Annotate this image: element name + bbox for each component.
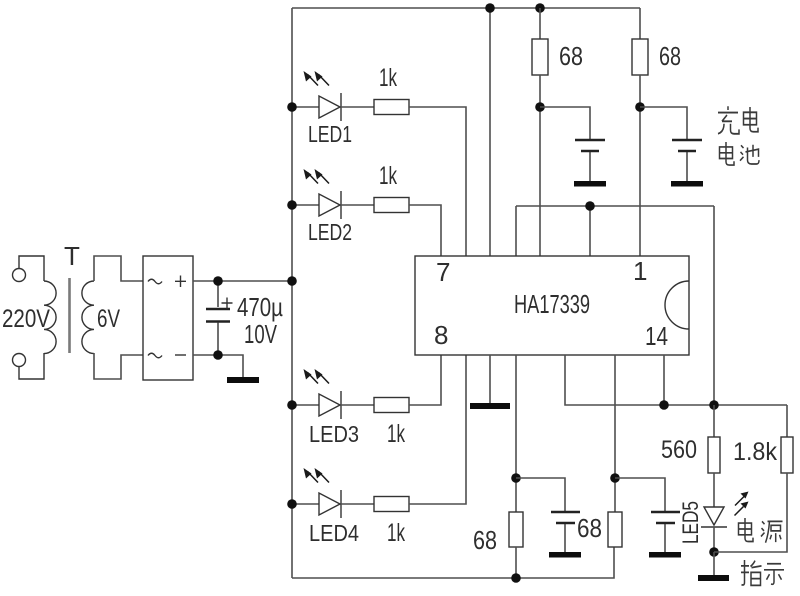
ground battery B1 [574, 181, 606, 187]
resistor R3 1k [374, 398, 409, 413]
wire LED5 to ground [713, 552, 715, 575]
wire bottom bus [292, 547, 614, 578]
wire 68 chain x540 [539, 8, 541, 39]
node top bus x540 [535, 3, 545, 13]
capacitor C3 stub [615, 478, 665, 511]
node battery2 tap [635, 102, 645, 112]
resistor R7 68 [509, 512, 523, 547]
rectifier + [175, 276, 186, 288]
label chong dian [718, 106, 739, 134]
wire 1.8k bottom to LED5 node [714, 473, 787, 552]
resistor R10 1.8k [781, 437, 793, 473]
capacitor C3 plate long [651, 511, 680, 513]
svg-text:1k: 1k [379, 64, 397, 92]
node LED1 [287, 102, 297, 112]
wire rectifier + output [193, 280, 292, 282]
svg-text:LED1: LED1 [308, 121, 352, 147]
svg-text:68: 68 [659, 41, 681, 71]
wire pin14 drop x664 [663, 355, 665, 405]
wire R5 down to IC [539, 75, 541, 256]
rectifier ~ top [148, 279, 162, 284]
svg-text:14: 14 [645, 321, 668, 351]
node bottom bus x516 [511, 573, 521, 583]
label zhi shi [741, 560, 762, 585]
capacitor C1 plate bottom [206, 320, 230, 323]
ground below rectifier [227, 377, 259, 383]
wire net mid left drop [515, 206, 517, 256]
capacitor C2 stub [516, 478, 565, 511]
svg-text:LED5: LED5 [678, 501, 703, 544]
ground LED5 [698, 575, 729, 581]
wire 560 top lead [713, 405, 715, 437]
svg-text:HA17339: HA17339 [514, 289, 590, 319]
node net405 x714 [709, 400, 719, 410]
node x615 cap tap [610, 473, 620, 483]
capacitor C1 lead bottom [217, 322, 219, 355]
resistor R5 68 [532, 39, 548, 75]
ground battery B2 [671, 181, 703, 187]
wire primary bottom [19, 353, 44, 379]
capacitor C2 plate short [556, 522, 575, 524]
node LED2 [287, 200, 297, 210]
svg-text:1: 1 [633, 256, 647, 286]
transformer core [68, 278, 71, 353]
resistor R8 68 [608, 512, 622, 547]
LED1 diode [292, 93, 374, 121]
svg-text:10V: 10V [244, 319, 277, 349]
svg-text:68: 68 [577, 513, 602, 543]
svg-text:8: 8 [434, 320, 448, 350]
label dian yuan [739, 518, 754, 542]
wire pin x569 to net405 [565, 355, 787, 405]
battery B1 lead [589, 152, 591, 181]
LED5 arrows [735, 492, 749, 516]
svg-text:560: 560 [661, 436, 697, 464]
svg-text:1.8k: 1.8k [733, 438, 777, 466]
battery B2 plate short [678, 150, 696, 152]
battery B2 plate long [672, 139, 702, 141]
svg-text:6V: 6V [97, 305, 120, 333]
wire secondary bottom [94, 353, 143, 379]
node rectifier cap bottom [213, 350, 223, 360]
svg-text:1k: 1k [379, 162, 397, 190]
node LED4 [287, 499, 297, 509]
node net405 x664 [659, 400, 669, 410]
resistor R4 1k [374, 497, 409, 512]
node LED3 [287, 400, 297, 410]
svg-text:1k: 1k [387, 420, 405, 448]
svg-text:T: T [64, 241, 80, 271]
LED3 arrows [304, 369, 330, 384]
ground capacitor C2 [549, 552, 581, 558]
terminal circle bottom [13, 354, 26, 367]
terminal circle top [13, 269, 26, 282]
resistor R2 1k [374, 198, 409, 213]
LED4 diode [292, 490, 374, 518]
battery B2 lead [686, 152, 688, 181]
capacitor C3 lead [664, 524, 666, 552]
svg-text:LED4: LED4 [309, 520, 359, 546]
svg-text:7: 7 [436, 257, 450, 287]
LED3 diode [292, 391, 374, 419]
wire primary top [19, 256, 44, 281]
wire net mid right drop [713, 206, 715, 405]
capacitor C1 plus sign [222, 298, 233, 309]
battery B1 plate short [581, 150, 599, 152]
capacitor C3 plate short [656, 522, 675, 524]
wire R3 to IC pin [409, 355, 441, 405]
wire 68 chain x640 [639, 8, 641, 39]
resistor R9 560 [708, 437, 720, 473]
svg-text:470µ: 470µ [237, 292, 283, 322]
node net mid x590 [585, 201, 595, 211]
svg-text:LED3: LED3 [309, 421, 359, 447]
node main bus feed [287, 276, 297, 286]
svg-text:68: 68 [473, 525, 497, 555]
wire top bus [292, 7, 640, 9]
wire 1.8k top lead [786, 405, 788, 437]
svg-text:220V: 220V [2, 305, 50, 333]
ground capacitor C3 [649, 552, 681, 558]
capacitor C2 lead [564, 524, 566, 552]
transformer T primary winding [44, 281, 56, 354]
wire R6 down to IC pin 1 [639, 75, 641, 256]
wire rectifier - output [193, 355, 243, 377]
wire R2 to IC pin [409, 205, 441, 256]
wire left bus [291, 8, 293, 578]
wire IC ground pin [489, 355, 491, 403]
resistor R6 68 [632, 39, 648, 75]
wire secondary top [94, 256, 143, 281]
wire 560 to LED5 [713, 473, 715, 507]
LED2 arrows [304, 169, 330, 184]
wire battery2 stub [640, 107, 687, 139]
wire chain x615 upper [614, 355, 616, 512]
wire R1 to IC pin [409, 107, 466, 256]
wire net mid horizontal [516, 205, 714, 207]
ground below IC [470, 403, 510, 409]
LED1 arrows [304, 71, 330, 86]
node rectifier cap top [213, 276, 223, 286]
svg-text:68: 68 [559, 41, 583, 71]
capacitor C2 plate long [551, 511, 580, 513]
wire net mid x590 drop [589, 206, 591, 256]
capacitor C1 470u lead top [217, 281, 219, 307]
LED4 arrows [304, 468, 330, 483]
svg-text:LED2: LED2 [308, 219, 352, 245]
capacitor C1 plate top [206, 308, 230, 311]
node LED5 cathode [709, 547, 719, 557]
rectifier ~ bottom [148, 353, 162, 358]
wire battery1 stub [540, 107, 590, 139]
op-amp U1 HA17339 [415, 256, 689, 355]
LED5 diode [701, 507, 727, 552]
wire R4 to IC pin [409, 355, 466, 504]
label dian chi [720, 142, 735, 165]
node x516 cap tap [511, 473, 521, 483]
rectifier minus [175, 354, 186, 356]
resistor R1 1k [374, 100, 409, 115]
wire top pin x490 [489, 8, 491, 256]
LED2 diode [292, 191, 374, 219]
node top bus x490 [485, 3, 495, 13]
node battery1 tap [535, 102, 545, 112]
wire chain x516 lower [515, 547, 517, 578]
svg-text:1k: 1k [387, 519, 405, 547]
transformer secondary winding [82, 281, 94, 354]
bridge rectifier box [143, 256, 193, 380]
wire chain x516 upper [515, 355, 517, 512]
battery B1 plate long [575, 139, 605, 141]
